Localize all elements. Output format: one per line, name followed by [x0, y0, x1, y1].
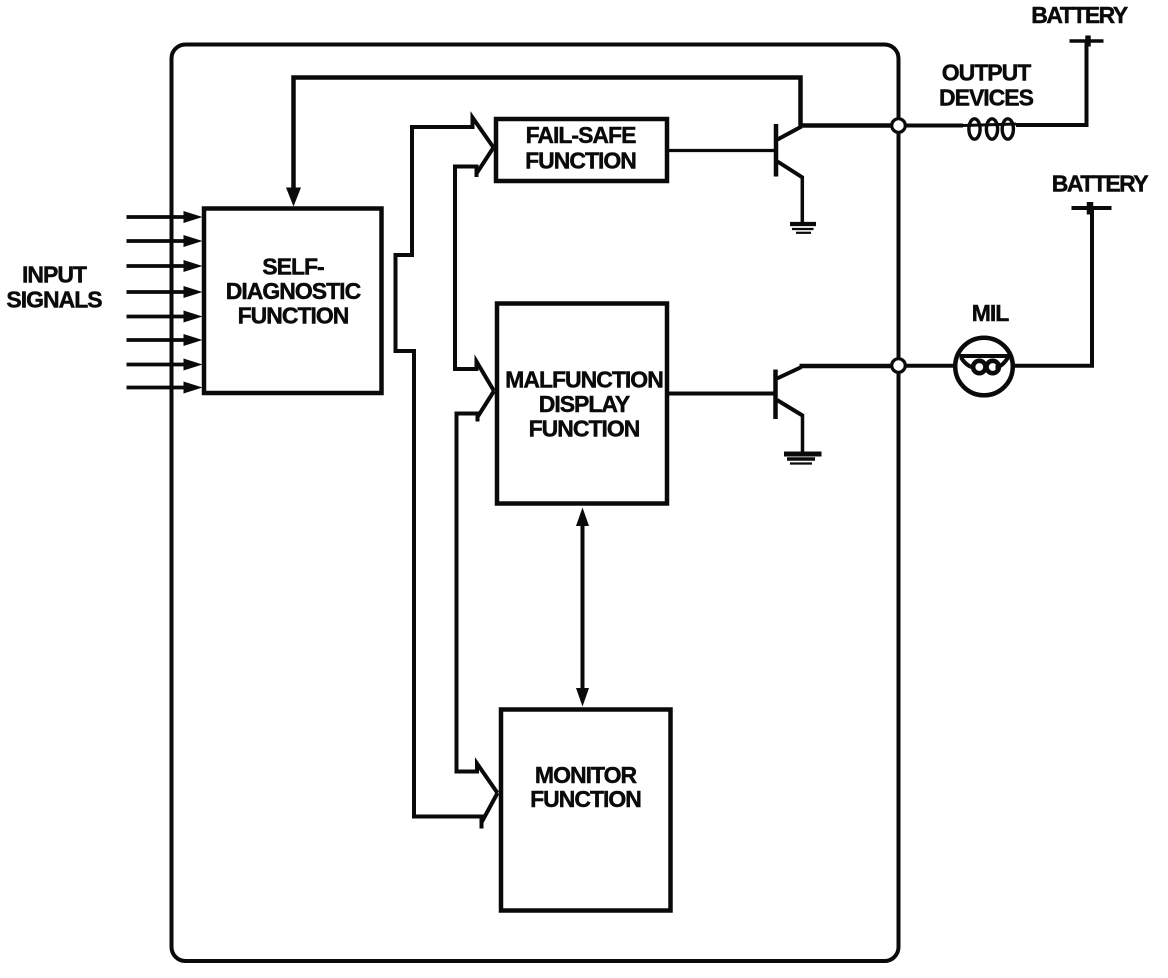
svg-text:BATTERY: BATTERY — [1031, 2, 1128, 28]
input signal wire 8 — [127, 382, 203, 394]
Q1 base bar — [774, 124, 779, 177]
Q1 collector wire — [799, 123, 894, 128]
Q1 emitter wire to ground — [801, 176, 805, 222]
Q1 collector lead — [778, 127, 802, 140]
wire coil to battery lead — [1016, 43, 1087, 126]
transistor Q2 (MIL driver) — [669, 367, 803, 453]
svg-text:SIGNALS: SIGNALS — [6, 286, 102, 312]
input signal wire 7 — [127, 359, 203, 371]
svg-text:FAIL-SAFE: FAIL-SAFE — [526, 122, 636, 148]
wire node to coil — [905, 124, 963, 128]
Q2 emitter lead — [777, 400, 803, 416]
input signal wire 6 — [127, 334, 203, 346]
self-diagnostic function text — [226, 253, 361, 328]
svg-text:FUNCTION: FUNCTION — [530, 786, 641, 812]
Q2 collector lead — [777, 367, 802, 379]
hollow arrowhead into fail-safe and middle branch — [455, 148, 494, 392]
input signal wire 5 — [127, 311, 203, 323]
svg-text:FUNCTION: FUNCTION — [238, 302, 349, 328]
hollow arrowhead into monitor — [482, 793, 498, 823]
fail-safe function box — [496, 119, 667, 181]
Q1 emitter lead — [778, 162, 803, 178]
monitor function text — [530, 762, 641, 812]
output devices coil — [963, 119, 1016, 139]
wire bus left branch (from monitor arrow up to fail-safe arrow) — [396, 118, 494, 829]
svg-text:FUNCTION: FUNCTION — [529, 415, 640, 441]
svg-text:SELF-: SELF- — [262, 253, 324, 279]
battery feed terminal (MIL) — [1072, 202, 1112, 215]
svg-text:FUNCTION: FUNCTION — [525, 147, 636, 173]
ECU enclosure box — [172, 45, 899, 962]
svg-text:DIAGNOSTIC: DIAGNOSTIC — [226, 278, 361, 304]
feedback wire from output node line to self-diagnostic input — [294, 78, 801, 191]
ground for Q2 — [784, 454, 822, 464]
wire MIL lamp to battery lead — [1013, 210, 1092, 366]
feedback arrowhead — [286, 188, 301, 207]
input signal wire 4 — [127, 286, 203, 298]
Q2 emitter wire to ground — [801, 414, 805, 453]
svg-text:DISPLAY: DISPLAY — [539, 391, 630, 417]
battery feed terminal (output devices) — [1070, 36, 1104, 47]
svg-text:INPUT: INPUT — [22, 261, 87, 287]
input signal wire 3 — [127, 260, 203, 272]
hollow arrowhead into malfunction display and lower branch — [457, 391, 498, 793]
fail-safe function text — [525, 122, 636, 174]
Q2 base bar — [773, 370, 778, 420]
label OUTPUT DEVICES — [939, 59, 1034, 110]
ground for Q1 — [790, 224, 816, 233]
bidirectional arrow between malfunction display and monitor — [576, 508, 589, 707]
wire node to MIL lamp — [905, 364, 956, 368]
node junction on output devices line — [892, 119, 906, 133]
self-diagnostic function box — [204, 209, 382, 394]
svg-text:DEVICES: DEVICES — [939, 84, 1034, 110]
malfunction display function text — [505, 366, 663, 441]
input signal wire 2 — [127, 235, 203, 247]
monitor function box — [501, 710, 671, 911]
svg-text:MIL: MIL — [972, 300, 1010, 326]
svg-text:BATTERY: BATTERY — [1052, 170, 1149, 196]
transistor Q1 (fail-safe output driver) — [669, 124, 803, 222]
svg-text:OUTPUT: OUTPUT — [942, 59, 1032, 85]
node junction on MIL line — [892, 359, 906, 373]
Q2 collector wire — [800, 364, 894, 369]
input signal wire 1 — [127, 211, 203, 223]
svg-text:MALFUNCTION: MALFUNCTION — [505, 366, 663, 392]
label INPUT SIGNALS — [6, 261, 102, 312]
MIL lamp — [955, 338, 1013, 396]
malfunction display function box — [497, 304, 667, 504]
Q2 base wire from malfunction display function — [669, 392, 776, 396]
svg-text:MONITOR: MONITOR — [535, 762, 638, 788]
Q1 base wire from fail-safe function — [669, 149, 776, 152]
